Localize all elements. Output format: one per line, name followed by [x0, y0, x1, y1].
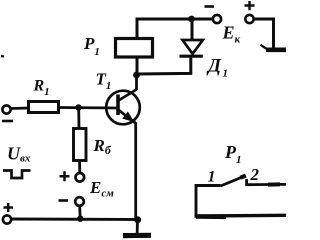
wire Rb to Esm plus	[78, 160, 81, 173]
resistor R1	[29, 102, 59, 113]
wire top rail from relay to Ek terminal	[136, 18, 212, 21]
terminal Esm minus	[59, 197, 84, 206]
svg-text:2: 2	[250, 165, 260, 184]
wire emitter vertical	[134, 123, 137, 221]
terminal input top (minus)	[2, 105, 13, 121]
wire junction to Rb	[77, 108, 80, 130]
contact movable arm	[221, 176, 246, 186]
resistor Rb	[74, 129, 87, 161]
terminal input bottom (plus)	[3, 203, 13, 224]
wire contact left fixed	[196, 186, 221, 217]
transistor Q T1	[106, 90, 140, 125]
diode D1	[180, 18, 203, 57]
ground (bottom)	[123, 233, 151, 239]
terminal Esm plus	[60, 171, 85, 181]
node junction top (collector / diode / relay / Ek)	[188, 16, 195, 23]
node junction emitter/rail	[134, 216, 141, 223]
wire Esm minus to rail	[78, 206, 81, 219]
wire collector vertical	[135, 75, 138, 90]
relay coil P1	[116, 39, 153, 58]
wire R1 to base	[59, 106, 119, 109]
wire ground lead	[136, 220, 139, 233]
wire bottom rail	[11, 218, 138, 221]
wire contact bottom line	[195, 215, 287, 217]
wire junction to diode bottom	[137, 56, 191, 75]
node junction collector	[133, 72, 140, 79]
node junction Esm/rail	[77, 216, 83, 222]
svg-text:1: 1	[208, 169, 216, 186]
wire Ek plus to ground	[254, 19, 274, 49]
wire relay bottom lead	[136, 57, 139, 76]
terminal Ek minus	[205, 7, 222, 24]
ground (top right)	[261, 45, 287, 50]
terminal Ek plus	[245, 1, 255, 23]
wire input to R1	[11, 107, 30, 110]
node junction base/Rb	[75, 104, 81, 110]
wire contact 2 fixed	[247, 179, 286, 185]
ink speck left margin	[1, 55, 4, 58]
wire relay top lead	[136, 18, 139, 40]
waveform negative pulse	[3, 171, 31, 179]
